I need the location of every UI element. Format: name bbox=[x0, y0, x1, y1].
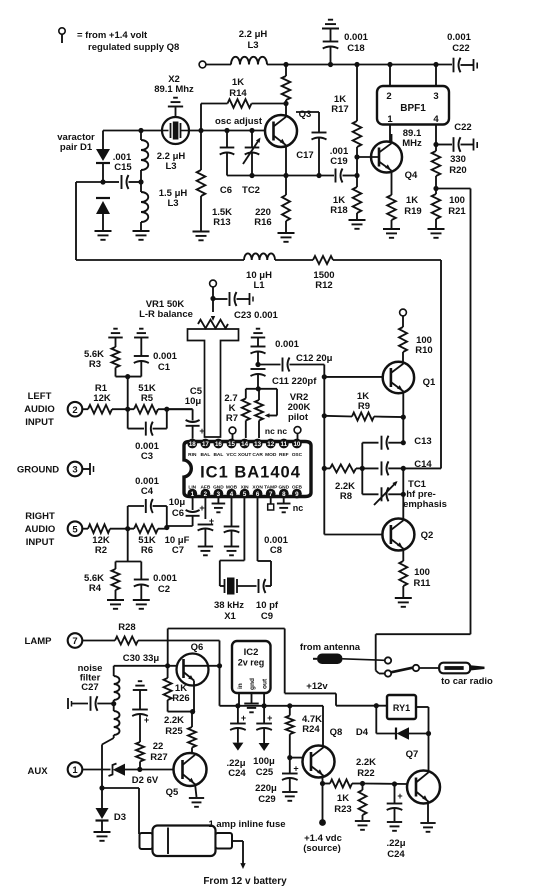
svg-text:6: 6 bbox=[256, 491, 260, 498]
svg-text:Q8: Q8 bbox=[330, 727, 343, 738]
capacitor (0.001 pin12 bypass) with ground above bbox=[251, 329, 266, 365]
wire pin5 down bbox=[243, 499, 245, 561]
svg-text:GND: GND bbox=[278, 485, 289, 491]
svg-text:C7: C7 bbox=[172, 545, 184, 556]
svg-text:R13: R13 bbox=[213, 217, 230, 228]
power legend symbol (from +1.4V supply) bbox=[59, 28, 65, 43]
ground below R21 bbox=[428, 229, 445, 238]
label C2 bbox=[153, 573, 177, 595]
junction bbox=[283, 101, 288, 106]
svg-text:nc: nc bbox=[293, 503, 304, 513]
svg-text:+: + bbox=[144, 715, 149, 725]
junction bbox=[401, 466, 406, 471]
label C3 bbox=[135, 441, 159, 462]
junction bbox=[256, 386, 261, 391]
wire BPF1 pin2 bbox=[389, 65, 391, 87]
terminal 3 ground bbox=[68, 462, 83, 477]
svg-text:C23 0.001: C23 0.001 bbox=[234, 310, 279, 321]
junction bbox=[328, 62, 333, 67]
label D3 bbox=[114, 812, 126, 823]
svg-text:+: + bbox=[199, 426, 204, 436]
label C19 bbox=[330, 146, 349, 167]
svg-text:+: + bbox=[293, 764, 298, 774]
label C6 bbox=[169, 497, 186, 519]
capacitor C27 stub bbox=[68, 698, 88, 709]
svg-text:OSC: OSC bbox=[292, 452, 303, 458]
svg-text:RIGHT: RIGHT bbox=[25, 511, 55, 522]
wire Q4 collector bbox=[391, 134, 393, 143]
svg-text:C25: C25 bbox=[256, 767, 274, 778]
label L3 1.5uH bbox=[159, 188, 188, 209]
wire right-side bus (to antenna switch) bbox=[470, 189, 472, 635]
svg-text:R25: R25 bbox=[165, 726, 183, 737]
capacitor C24 .22u (at IC2 in) bbox=[230, 706, 246, 743]
label Q3 bbox=[299, 109, 312, 120]
label GROUND bbox=[17, 465, 59, 476]
svg-text:10: 10 bbox=[293, 441, 300, 448]
wire Q7 emitter bbox=[427, 801, 429, 822]
svg-text:LIN: LIN bbox=[188, 485, 196, 491]
label C30 bbox=[123, 653, 160, 664]
svg-text:100μ: 100μ bbox=[253, 756, 275, 767]
junction bbox=[392, 781, 397, 786]
svg-text:C24: C24 bbox=[228, 768, 246, 779]
svg-text:R18: R18 bbox=[330, 205, 347, 216]
svg-text:C1: C1 bbox=[158, 362, 171, 373]
label osc adjust bbox=[215, 116, 263, 127]
ground below pin4 cap bbox=[224, 547, 239, 556]
svg-text:4: 4 bbox=[230, 491, 234, 498]
junction bbox=[354, 62, 359, 67]
inductor L1 10uH bbox=[244, 253, 275, 260]
label R21 bbox=[448, 195, 466, 217]
svg-text:R11: R11 bbox=[414, 578, 432, 589]
wire bbox=[82, 528, 88, 530]
svg-text:emphasis: emphasis bbox=[403, 499, 447, 510]
resistor R13 1.5K bbox=[197, 170, 206, 231]
wire Q1-Q2 vertical bbox=[402, 468, 404, 519]
svg-text:From 12 v battery: From 12 v battery bbox=[203, 876, 287, 887]
ground below Q5 bbox=[189, 798, 204, 807]
svg-text:(source): (source) bbox=[303, 843, 340, 854]
label Q8 bbox=[330, 727, 343, 738]
label C15 bbox=[113, 152, 133, 173]
label Q1 bbox=[423, 377, 436, 388]
junction bbox=[401, 415, 406, 420]
capacitor C11 220pf bbox=[251, 369, 266, 388]
relay RY1 bbox=[387, 695, 416, 719]
wire C14 row to right rail bbox=[403, 467, 441, 469]
wire Q6 collector down to 2v rail bbox=[219, 666, 221, 706]
wire varactor feedback (left) bbox=[76, 182, 244, 260]
inductor L3 2.2uH (vertical) bbox=[141, 131, 148, 171]
switch arm bbox=[391, 668, 413, 673]
ground below R19 bbox=[383, 229, 400, 238]
svg-text:2: 2 bbox=[386, 91, 391, 102]
label C12 bbox=[296, 353, 333, 364]
svg-text:R4: R4 bbox=[89, 583, 102, 594]
junction bbox=[224, 128, 229, 133]
switch contact (antenna) bbox=[385, 657, 391, 663]
resistor R23 1K bbox=[359, 784, 367, 821]
wire Q3 emitter bbox=[285, 146, 287, 176]
svg-text:X1: X1 bbox=[224, 611, 236, 622]
svg-text:XOUT: XOUT bbox=[238, 452, 251, 458]
label R11 bbox=[414, 567, 432, 589]
noise filter coil (upper) bbox=[114, 666, 120, 704]
svg-text:C3: C3 bbox=[141, 451, 153, 462]
trimmer TC1 bbox=[374, 481, 403, 505]
svg-text:BPF1: BPF1 bbox=[400, 103, 426, 114]
svg-text:osc adjust: osc adjust bbox=[215, 116, 263, 127]
voltage regulator IC2 bbox=[232, 641, 271, 693]
wire (top rail) bbox=[267, 64, 452, 66]
label C29 bbox=[255, 783, 277, 805]
capacitor C15 .001 bbox=[103, 175, 141, 189]
svg-text:4: 4 bbox=[433, 114, 439, 125]
wire bbox=[206, 64, 231, 66]
label C7 bbox=[165, 535, 190, 556]
resistor R14 1K bbox=[201, 99, 286, 108]
svg-text:out: out bbox=[262, 678, 269, 689]
terminal 1 aux bbox=[68, 762, 83, 777]
label Q4 bbox=[405, 170, 418, 181]
svg-text:2: 2 bbox=[204, 491, 208, 498]
svg-text:C30 33μ: C30 33μ bbox=[123, 653, 160, 664]
wire osc base line bbox=[103, 130, 266, 132]
junction R3/C1 bbox=[125, 374, 130, 379]
wire Q7 collector bbox=[428, 734, 430, 773]
junction bbox=[190, 709, 195, 714]
svg-text:100: 100 bbox=[414, 567, 430, 578]
label R9 bbox=[357, 391, 370, 412]
nc labels bbox=[265, 426, 287, 436]
svg-text:9: 9 bbox=[295, 491, 299, 498]
resistor R8 2.2K bbox=[330, 464, 356, 472]
svg-text:0.001: 0.001 bbox=[275, 339, 299, 350]
ground pin8 bbox=[277, 499, 291, 513]
svg-text:Q2: Q2 bbox=[421, 530, 434, 541]
ground pin3 bbox=[212, 499, 226, 513]
wire to fuse bbox=[102, 788, 139, 834]
IC1 bottom pins 1-9 bbox=[187, 489, 301, 499]
label Q5 bbox=[166, 787, 179, 798]
svg-text:GROUND: GROUND bbox=[17, 465, 59, 476]
capacitor C22 (second output coupling) bbox=[436, 137, 477, 152]
svg-text:R6: R6 bbox=[141, 545, 153, 556]
label R25 bbox=[164, 715, 184, 737]
svg-text:IC2: IC2 bbox=[244, 647, 259, 658]
svg-text:12K: 12K bbox=[93, 393, 111, 404]
IC1 top pins 18-10 bbox=[187, 439, 301, 449]
capacitor C6 10u (series to pin1) bbox=[167, 499, 205, 528]
svg-text:R24: R24 bbox=[302, 724, 320, 735]
resistor R1 12K bbox=[88, 405, 112, 414]
resistor R3 5.6K with ground above bbox=[108, 329, 141, 377]
label AUX bbox=[27, 766, 48, 777]
wire Q2 base bbox=[324, 534, 383, 536]
svg-text:3: 3 bbox=[72, 465, 77, 476]
terminal pin10 OSC bbox=[294, 427, 301, 439]
label C18 bbox=[344, 32, 368, 54]
svg-text:TAMP: TAMP bbox=[264, 485, 278, 491]
ground below C25 bbox=[259, 743, 270, 751]
wire +12v top line bbox=[168, 628, 285, 630]
svg-text:0.001: 0.001 bbox=[447, 32, 471, 43]
junction bbox=[111, 701, 116, 706]
capacitor C22 (output coupling, top) bbox=[454, 58, 478, 73]
capacitor C18 0.001 with ground above bbox=[322, 20, 339, 65]
label R28 bbox=[118, 622, 135, 633]
junction bbox=[99, 785, 104, 790]
junction bbox=[354, 173, 359, 178]
IC1 label bbox=[200, 464, 301, 482]
transistor Q4 bbox=[371, 142, 402, 173]
wire bbox=[158, 528, 167, 530]
ground below R16 bbox=[278, 233, 295, 242]
wire R9 row bbox=[324, 416, 403, 417]
svg-text:R10: R10 bbox=[415, 345, 432, 356]
label 1 amp inline fuse bbox=[208, 819, 285, 830]
svg-text:C17: C17 bbox=[296, 150, 313, 161]
svg-text:MOD: MOD bbox=[265, 452, 277, 458]
svg-text:+12v: +12v bbox=[306, 681, 328, 692]
svg-text:2v reg: 2v reg bbox=[238, 658, 265, 668]
svg-text:2.2K: 2.2K bbox=[356, 757, 376, 768]
terminal 5 right audio bbox=[68, 521, 83, 536]
svg-text:38 kHz: 38 kHz bbox=[214, 600, 244, 611]
ground above X2 bbox=[168, 98, 183, 117]
terminal (supply to VR1) bbox=[210, 280, 217, 287]
label Q6 bbox=[191, 642, 204, 653]
junction bbox=[283, 173, 288, 178]
resistor R22 2.2K bbox=[323, 780, 363, 788]
wire IC2 gnd pin bbox=[251, 693, 253, 703]
wire RY1 right bbox=[416, 707, 429, 734]
junction bbox=[316, 173, 321, 178]
IC1 BA1404 body bbox=[184, 442, 311, 497]
svg-text:Q5: Q5 bbox=[166, 787, 179, 798]
label C23 bbox=[234, 310, 279, 321]
label R3 bbox=[84, 349, 104, 370]
capacitor C12 20u (series) bbox=[258, 358, 324, 372]
label R19 bbox=[404, 195, 421, 217]
capacitor C4 0.001 (across R6) bbox=[128, 499, 167, 529]
junction bbox=[401, 440, 406, 445]
junction bbox=[249, 128, 254, 133]
label LEFT AUDIO INPUT bbox=[24, 391, 55, 428]
svg-text:C15: C15 bbox=[114, 162, 132, 173]
svg-text:R2: R2 bbox=[95, 545, 107, 556]
svg-text:pair D1: pair D1 bbox=[60, 142, 93, 153]
wire Q4 emitter bbox=[391, 172, 393, 196]
wire BPF1 pin1 to Q4 bbox=[389, 125, 391, 142]
junction bbox=[387, 62, 392, 67]
junction bbox=[235, 703, 240, 708]
label R27 bbox=[150, 741, 167, 763]
label R10 bbox=[415, 335, 432, 356]
svg-text:C6: C6 bbox=[220, 185, 232, 196]
junction bbox=[138, 179, 143, 184]
label R7 bbox=[224, 393, 238, 424]
svg-text:R27: R27 bbox=[150, 752, 167, 763]
label C8 bbox=[264, 535, 288, 556]
svg-text:18: 18 bbox=[189, 441, 196, 448]
capacitor C23 0.001 bbox=[213, 292, 253, 306]
label R17 bbox=[331, 94, 348, 115]
resistor R27 22 bbox=[136, 742, 144, 769]
capacitor C1 0.001 with ground above bbox=[134, 329, 149, 377]
svg-text:L-R balance: L-R balance bbox=[139, 309, 193, 320]
ground below D3 bbox=[94, 832, 111, 841]
diode D4 bbox=[376, 706, 428, 740]
svg-text:C29: C29 bbox=[258, 794, 275, 805]
zener diode D2 6V bbox=[109, 764, 175, 777]
label C22 top bbox=[447, 32, 471, 54]
wire R26-R25 link bbox=[168, 711, 193, 713]
resistor R16 220 bbox=[282, 176, 290, 233]
ground below R23 bbox=[355, 821, 370, 830]
crystal X1 38kHz bbox=[220, 561, 257, 595]
svg-text:Q4: Q4 bbox=[405, 170, 418, 181]
IC1 top pin names bbox=[188, 452, 302, 458]
svg-text:D2 6V: D2 6V bbox=[132, 775, 159, 786]
svg-text:+: + bbox=[241, 713, 246, 723]
capacitor C17 bbox=[296, 112, 327, 176]
svg-text:C8: C8 bbox=[270, 545, 282, 556]
junction Q6 collector bbox=[217, 663, 222, 668]
label from antenna bbox=[300, 642, 361, 653]
switch pole bbox=[413, 665, 419, 671]
transistor Q2 bbox=[382, 519, 414, 551]
junction bbox=[164, 525, 169, 530]
junction bbox=[255, 362, 260, 367]
junction bbox=[287, 755, 292, 760]
svg-text:AUX: AUX bbox=[27, 766, 48, 777]
svg-text:RIN: RIN bbox=[188, 452, 197, 458]
label C11 bbox=[272, 376, 317, 387]
svg-text:2.2 μH: 2.2 μH bbox=[239, 29, 268, 40]
svg-text:3: 3 bbox=[217, 491, 221, 498]
label R8 bbox=[335, 481, 355, 502]
resistor R15 (collector load) bbox=[282, 65, 291, 104]
svg-text:INPUT: INPUT bbox=[26, 537, 55, 548]
svg-text:C18: C18 bbox=[347, 43, 364, 54]
wire long rail (MPX feedback) bbox=[275, 259, 441, 261]
capacitor C9 10pf bbox=[258, 561, 272, 593]
wire to Q7 base bbox=[363, 783, 408, 786]
junction varactor midpoint bbox=[100, 179, 105, 184]
ground IC2 bbox=[244, 704, 258, 713]
svg-text:1: 1 bbox=[191, 491, 195, 498]
ground below R13 bbox=[193, 232, 210, 241]
label R23 bbox=[334, 793, 351, 815]
svg-text:1K: 1K bbox=[232, 77, 244, 88]
diode D3 bbox=[96, 788, 109, 831]
resistor R20 330 bbox=[432, 145, 441, 189]
label R12 bbox=[313, 270, 334, 291]
junction bbox=[125, 407, 130, 412]
junction bbox=[283, 62, 288, 67]
ground below R4 bbox=[107, 600, 124, 609]
svg-text:C22: C22 bbox=[452, 43, 469, 54]
svg-text:+: + bbox=[267, 713, 272, 723]
resistor R2 12K bbox=[88, 524, 110, 533]
inductor L3 2.2uH (top) bbox=[231, 29, 267, 65]
svg-text:regulated supply Q8: regulated supply Q8 bbox=[88, 42, 179, 53]
wire C12 output down bbox=[323, 365, 325, 535]
svg-text:R28: R28 bbox=[118, 622, 135, 633]
wire bbox=[112, 408, 134, 410]
svg-text:Q6: Q6 bbox=[191, 642, 204, 653]
svg-text:C12 20μ: C12 20μ bbox=[296, 353, 333, 364]
wire Q1 base bbox=[324, 376, 383, 378]
wire Q3 collector bbox=[285, 104, 287, 117]
resistor R24 4.7K bbox=[286, 706, 294, 758]
capacitor C13 bbox=[382, 436, 404, 450]
svg-text:C22: C22 bbox=[454, 122, 471, 133]
svg-text:nc nc: nc nc bbox=[265, 426, 287, 436]
svg-text:8: 8 bbox=[282, 491, 286, 498]
svg-text:C6: C6 bbox=[172, 508, 184, 519]
IC1 bottom pin names bbox=[188, 485, 302, 491]
svg-text:Q3: Q3 bbox=[299, 109, 312, 120]
wire Q6 base row bbox=[114, 665, 177, 667]
svg-text:GND: GND bbox=[213, 485, 224, 491]
svg-text:R26: R26 bbox=[172, 693, 189, 704]
resistor R12 1500 bbox=[313, 256, 333, 264]
svg-text:LEFT: LEFT bbox=[28, 391, 52, 402]
resistor R9 1K bbox=[352, 413, 374, 421]
svg-text:100: 100 bbox=[449, 195, 465, 206]
capacitor C14 (row) bbox=[362, 461, 403, 475]
junction bbox=[374, 703, 379, 708]
junction Q6 base node bbox=[165, 663, 170, 668]
label +12v bbox=[306, 681, 328, 692]
ground below C7 bbox=[198, 547, 213, 556]
band-pass filter BPF1 bbox=[377, 86, 449, 125]
wire coil bottom bbox=[102, 735, 114, 788]
wire bbox=[82, 640, 115, 642]
resistor R26 1K bbox=[164, 666, 172, 712]
svg-text:1K: 1K bbox=[337, 793, 349, 804]
resistor R21 100 bbox=[432, 189, 441, 229]
svg-text:gnd: gnd bbox=[249, 678, 256, 690]
svg-text:R12: R12 bbox=[315, 280, 332, 291]
svg-text:XIN: XIN bbox=[241, 485, 250, 491]
ground below C24 bbox=[232, 743, 243, 751]
wire Q5 emitter bbox=[195, 784, 197, 798]
label R26 bbox=[172, 683, 189, 704]
wire down to audio line bbox=[127, 377, 129, 410]
junction bbox=[125, 526, 130, 531]
ground below Q7 bbox=[420, 823, 435, 832]
terminal pin7 bbox=[268, 499, 274, 511]
transistor Q5 bbox=[174, 753, 207, 786]
svg-text:R14: R14 bbox=[229, 88, 247, 99]
label noise filter C27 bbox=[78, 663, 103, 693]
resistor R5 51K bbox=[134, 405, 158, 414]
antenna connector bbox=[313, 654, 385, 665]
svg-text:0.001: 0.001 bbox=[344, 32, 368, 43]
terminal 7 lamp bbox=[68, 633, 83, 648]
capacitor (pin4 bypass) bbox=[224, 499, 240, 547]
label D4 bbox=[356, 727, 369, 738]
svg-text:R23: R23 bbox=[334, 804, 351, 815]
svg-text:pilot: pilot bbox=[288, 412, 309, 423]
svg-text:AFB: AFB bbox=[200, 485, 210, 491]
svg-text:L3: L3 bbox=[167, 198, 178, 209]
